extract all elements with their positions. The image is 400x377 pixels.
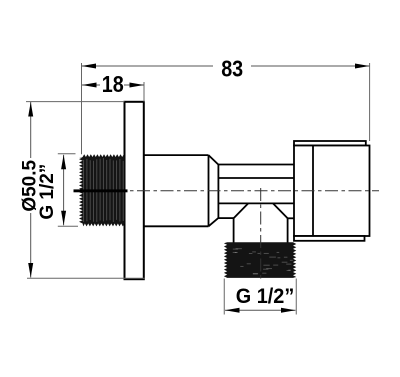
svg-text:18: 18 [102,71,124,97]
body chamfer bottom [209,218,219,226]
dimension G 1/2 left [37,154,78,227]
inlet thread G1/2 [79,154,125,226]
inlet tube [144,155,209,226]
outlet thread G1/2 [224,242,296,278]
outlet neck [234,218,288,242]
outlet boss chamfer left [234,203,249,218]
wall flange [125,102,144,279]
centerline vertical [260,188,262,282]
svg-text:G 1/2”: G 1/2” [236,284,295,308]
valve body [218,165,293,219]
svg-text:G 1/2”: G 1/2” [37,164,58,220]
dimension diameter 50.5 [20,102,146,279]
outlet boss chamfer right [273,203,288,218]
handle knob [294,141,370,241]
body chamfer top [209,155,219,165]
dimension 83 [82,56,370,155]
centerline horizontal [74,189,380,192]
dimension G 1/2 bottom [224,279,296,315]
svg-text:83: 83 [221,56,243,82]
dimension 18 [82,71,144,102]
